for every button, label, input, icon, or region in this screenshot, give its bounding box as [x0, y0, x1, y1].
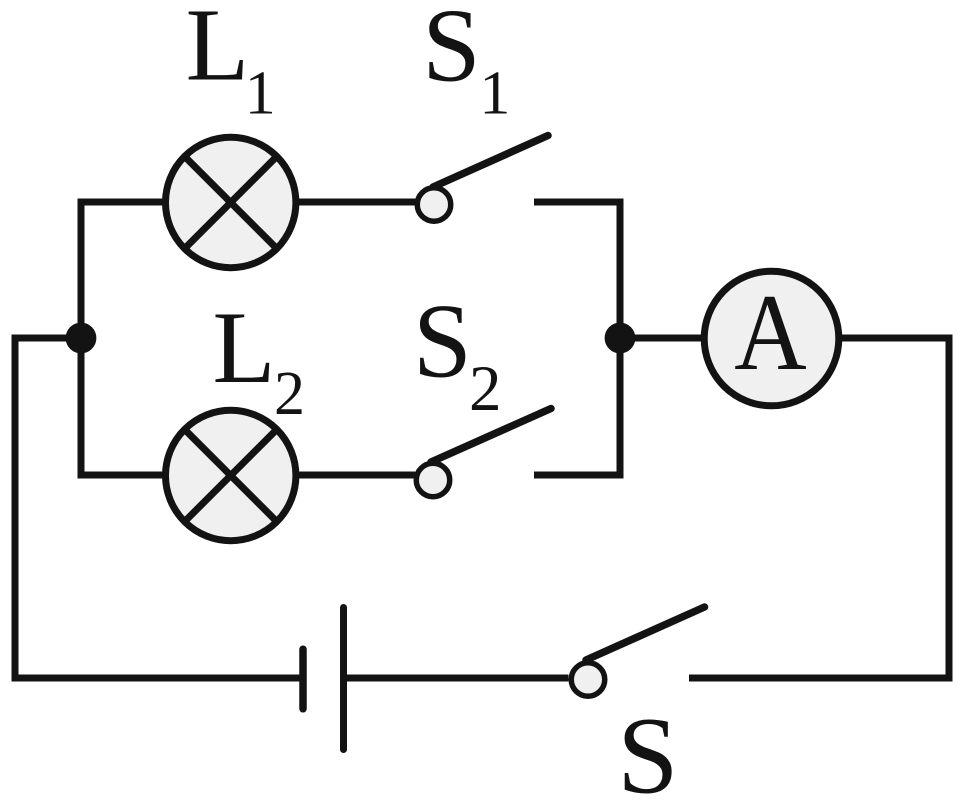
svg-text:S: S [617, 695, 678, 801]
wire: right outer vertical [946, 335, 953, 682]
svg-text:1: 1 [245, 60, 276, 128]
switch S1 [417, 136, 548, 222]
svg-text:S: S [422, 0, 480, 104]
wire: lamp L2 to switch S2 [295, 472, 415, 479]
wire: switch S2 to right bus [534, 472, 624, 479]
wire: left junction stub [12, 335, 82, 342]
node: right junction [605, 323, 636, 354]
svg-text:L: L [213, 291, 276, 405]
lamp L1 [166, 137, 296, 267]
svg-text:2: 2 [274, 360, 305, 428]
switch S [571, 607, 704, 696]
wire: right inner vertical bus [617, 199, 624, 479]
svg-text:A: A [734, 272, 806, 393]
wire: battery to switch S [347, 675, 569, 682]
wire: L2 branch left horizontal [78, 472, 169, 479]
wire: right junction to ammeter [620, 335, 706, 342]
label L1 [186, 0, 276, 128]
svg-text:2: 2 [469, 353, 502, 425]
svg-text:S: S [413, 283, 472, 400]
label S1 [422, 0, 510, 128]
wire: bottom right horizontal [689, 675, 953, 682]
wire: bottom left horizontal [12, 675, 300, 682]
lamp L2 [166, 410, 296, 540]
node: left junction [66, 323, 97, 354]
battery B1 [303, 608, 344, 750]
label L2 [213, 291, 306, 428]
wire: lamp L1 to switch S1 [295, 199, 416, 206]
wire: L1 branch left horizontal [78, 199, 169, 206]
wire: left inner vertical bus [78, 199, 85, 479]
switch S2 [416, 409, 551, 497]
wire: ammeter to right outer vertical [837, 335, 953, 342]
wire: switch S1 to right bus [534, 199, 624, 206]
svg-text:1: 1 [479, 60, 510, 128]
label S2 [413, 283, 502, 425]
svg-text:L: L [186, 0, 250, 103]
ammeter U1 [704, 271, 839, 406]
wire: left outer vertical [12, 335, 19, 682]
